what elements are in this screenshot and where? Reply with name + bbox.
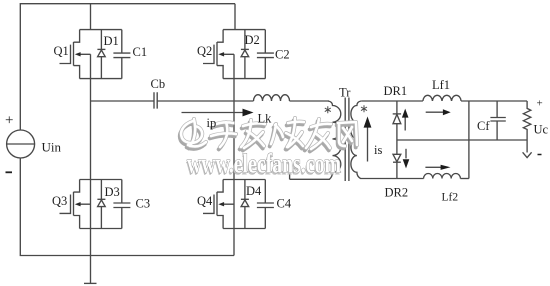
svg-text:C1: C1: [133, 45, 148, 59]
svg-text:D1: D1: [104, 34, 119, 48]
svg-text:D4: D4: [246, 184, 262, 198]
watermark chinese white core: [181, 118, 357, 149]
arrow ip: [182, 109, 254, 117]
svg-text:+: +: [5, 113, 13, 129]
wire top rail: [20, 4, 235, 130]
svg-text:Cf: Cf: [477, 119, 490, 133]
svg-text:+: +: [537, 98, 543, 110]
wire leg A body/source vertical with ground stub: [90, 54, 92, 283]
wire primary return stub: [289, 165, 291, 179]
wire Cb to Lk: [157, 100, 253, 102]
svg-text:Uin: Uin: [42, 140, 62, 155]
svg-text:Lf2: Lf2: [442, 192, 459, 204]
svg-text:C4: C4: [277, 197, 292, 211]
capacitor C2: [257, 30, 274, 79]
svg-text:DR1: DR1: [384, 84, 408, 98]
inductor Lk: [254, 95, 290, 101]
resistor Uc load: [523, 101, 530, 153]
wire DR1 branch: [396, 101, 398, 140]
wire leg A drain drop: [90, 4, 92, 30]
svg-text:D2: D2: [245, 33, 260, 47]
wire DR2 branch: [396, 140, 398, 179]
transformer Tr primary winding: [290, 101, 341, 179]
transistor Q1: [60, 30, 122, 79]
svg-text:D3: D3: [105, 185, 120, 199]
transistor Q2: [203, 30, 265, 79]
inductor Lf2: [424, 173, 461, 178]
svg-text:is: is: [374, 143, 382, 157]
wire secondary top to output: [361, 100, 423, 102]
wire Lf1 to load top: [461, 100, 527, 102]
transformer core: [345, 98, 349, 182]
wire Lk to transformer primary: [290, 100, 330, 102]
arrow Lf1 current: [426, 109, 451, 115]
svg-text:Lf1: Lf1: [432, 78, 450, 92]
capacitor Cf: [490, 101, 505, 140]
voltage source Uin: [7, 130, 35, 158]
watermark chinese shadow: [180, 120, 356, 151]
wire leg B drain drop: [234, 4, 236, 30]
wire leg B body/source vertical: [233, 54, 235, 255]
wire phase node A to Cb: [91, 100, 155, 102]
svg-text:www.elecfans.com: www.elecfans.com: [187, 149, 341, 179]
svg-text:Q4: Q4: [197, 194, 213, 208]
svg-text:Q3: Q3: [52, 194, 67, 208]
wire bottom rail secondary: [397, 178, 424, 180]
arrow is: [364, 117, 372, 162]
label minus input: [6, 171, 13, 173]
diode D4: [241, 180, 249, 229]
wire Lf2 to right vertical: [460, 178, 469, 180]
arrow DR2 current: [403, 149, 410, 169]
svg-text:Cb: Cb: [151, 77, 166, 91]
wire bottom rail: [20, 158, 234, 256]
inductor Lf1: [423, 95, 461, 101]
svg-text:Q1: Q1: [54, 44, 69, 58]
capacitor C1: [113, 30, 130, 79]
capacitor C4: [257, 180, 274, 229]
capacitor Cb: [154, 92, 157, 108]
wire middle rail: [397, 139, 527, 141]
watermark chinese gray edge: [181, 118, 357, 149]
diode D1: [97, 30, 105, 79]
diode D3: [97, 180, 105, 229]
wire right vertical: [468, 101, 470, 179]
ground output: [523, 152, 532, 157]
svg-text:DR2: DR2: [385, 186, 409, 200]
diode D2: [241, 30, 249, 79]
svg-text:C3: C3: [136, 197, 151, 211]
svg-text:Q2: Q2: [197, 44, 212, 58]
node secondary dot: [361, 105, 367, 112]
ground: [84, 282, 97, 284]
arrow DR1 current: [402, 109, 409, 131]
svg-text:ip: ip: [207, 116, 217, 130]
node primary dot: [325, 106, 331, 113]
svg-text:Tr: Tr: [339, 86, 351, 100]
arrow Lf2 current: [425, 165, 450, 170]
transformer Tr secondary winding: [351, 101, 397, 179]
label minus output: [538, 154, 542, 156]
diode DR2: [393, 154, 401, 162]
diode DR1: [393, 114, 401, 124]
svg-text:C2: C2: [275, 48, 290, 62]
svg-text:Lk: Lk: [258, 112, 273, 126]
transistor Q3: [60, 180, 122, 229]
svg-text:Uc: Uc: [534, 123, 549, 137]
capacitor C3: [113, 180, 130, 229]
transistor Q4: [203, 180, 265, 229]
